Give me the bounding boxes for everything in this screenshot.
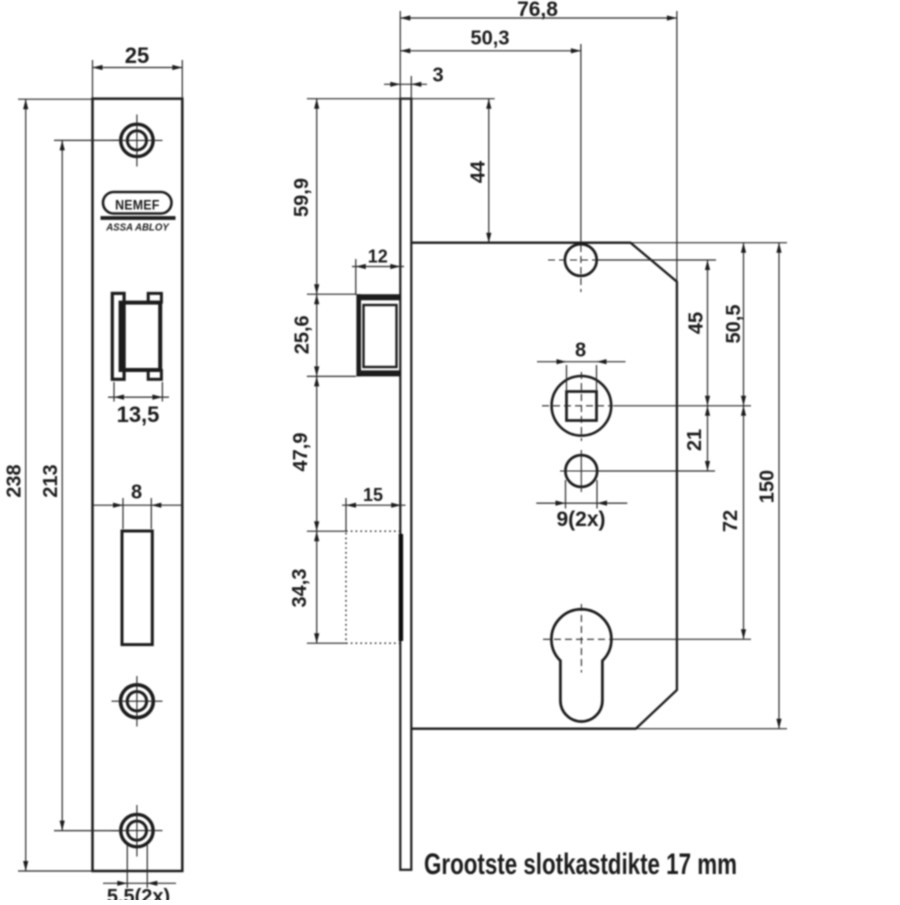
dimension 12 (latch height) [352, 247, 404, 296]
spindle square hole 8 mm [567, 392, 597, 421]
extension line top screw centre [54, 139, 120, 141]
ASSA ABLOY logotype [105, 222, 170, 233]
dimension 76,8 (total depth) [400, 0, 677, 282]
dimension 8 (spindle square) [537, 339, 626, 390]
dimension 15 (slot depth) [342, 485, 406, 531]
svg-text:ASSA ABLOY: ASSA ABLOY [105, 222, 170, 233]
svg-text:213: 213 [40, 464, 62, 497]
svg-text:8: 8 [131, 482, 142, 504]
dimension 59,9 [291, 99, 319, 295]
svg-text:34,3: 34,3 [289, 569, 311, 608]
svg-text:150: 150 [757, 470, 779, 503]
svg-text:12: 12 [368, 247, 388, 267]
latch bolt side view outer [357, 294, 401, 376]
extension line latch bottom [307, 375, 356, 377]
extension line spindle centre right [614, 405, 752, 407]
dimension 44 [468, 99, 492, 243]
svg-text:21: 21 [684, 429, 706, 451]
dimension 45 [686, 260, 710, 406]
svg-text:44: 44 [468, 160, 490, 183]
cylinder slot dashed outline [346, 531, 401, 643]
spindle centrelines dashed [542, 372, 613, 441]
svg-text:15: 15 [363, 485, 383, 505]
svg-text:45: 45 [686, 312, 708, 334]
svg-text:238: 238 [4, 464, 26, 497]
NEMEF logo bar [101, 216, 176, 220]
extension line plate bottom left [18, 870, 93, 872]
latch bolt side view inner face [364, 305, 397, 367]
latch cutout central rectangle [121, 303, 161, 370]
extension line case bottom right [636, 728, 787, 730]
svg-text:13,5: 13,5 [117, 402, 160, 427]
lower slot (8 mm rectangular hole) [122, 531, 152, 645]
dimension 8 (lower slot width) [93, 482, 182, 530]
dimension 72 [720, 406, 746, 640]
dimension 25 (faceplate width) [93, 43, 183, 99]
faceplate front view outline [93, 99, 183, 871]
note text [424, 848, 737, 881]
svg-text:76,8: 76,8 [517, 0, 558, 21]
faceplate strip edge view [400, 99, 411, 870]
svg-text:9(2x): 9(2x) [556, 508, 605, 531]
extension line top hole centre [598, 259, 716, 261]
dimension 21 [684, 406, 710, 471]
dimension 213 (screw hole spacing) [40, 140, 65, 830]
dimension 50,5 [723, 243, 746, 406]
latch cutout bottom-right notch [148, 371, 161, 380]
svg-text:50,5: 50,5 [723, 305, 745, 344]
svg-text:Grootste slotkastdikte 17 mm: Grootste slotkastdikte 17 mm [424, 848, 737, 881]
screw hole top (countersunk) [112, 115, 163, 167]
svg-text:50,3: 50,3 [471, 28, 510, 50]
dimension 13,5 (latch cutout width) [108, 382, 169, 427]
latch cutout top-right notch [148, 293, 161, 302]
dimension 238 (faceplate length) [4, 99, 29, 871]
dimension 47,9 [290, 376, 319, 531]
svg-text:47,9: 47,9 [290, 433, 312, 472]
NEMEF logo pill [103, 192, 172, 214]
svg-text:25: 25 [125, 43, 149, 68]
extension line strip top [307, 98, 495, 100]
extension line latch top [307, 293, 356, 295]
svg-text:NEMEF: NEMEF [115, 197, 159, 213]
svg-text:8: 8 [575, 339, 586, 361]
dimension 9(2x) [536, 480, 627, 531]
extension line slot top [307, 530, 346, 532]
extension line bottom screw centre [54, 830, 120, 832]
cylinder centrelines dashed [543, 604, 612, 673]
lock case outline [411, 243, 677, 729]
svg-text:5,5(2x): 5,5(2x) [107, 886, 170, 900]
screw hole bottom (countersunk) [112, 805, 163, 857]
svg-text:25,6: 25,6 [292, 315, 314, 354]
extension line slot bottom [307, 642, 346, 644]
fixing hole 9 mm [560, 450, 602, 492]
svg-text:72: 72 [720, 510, 742, 532]
dimension 34,3 [289, 531, 319, 643]
euro profile cylinder hole [551, 609, 611, 721]
dimension 3 (faceplate thickness) [384, 65, 444, 99]
dimension 150 (case height) [757, 243, 782, 729]
latch cutout left slit [112, 293, 124, 379]
screw hole middle [112, 676, 163, 727]
svg-text:59,9: 59,9 [291, 178, 313, 217]
cylinder slot opening in strip (solid) [399, 534, 403, 641]
dimension 25,6 [292, 294, 320, 376]
extension line case top right [631, 242, 787, 244]
dimension 50,3 (backset to hole) [400, 28, 581, 244]
extension line 9mm hole centre [599, 470, 715, 472]
extension line cylinder centre [613, 638, 752, 640]
top fixing hole [548, 244, 598, 292]
spindle follower circle [552, 376, 612, 436]
dimension 5,5(2x) (screw hole dia) [103, 845, 176, 905]
extension line plate top left [18, 98, 93, 100]
svg-text:3: 3 [432, 65, 443, 87]
